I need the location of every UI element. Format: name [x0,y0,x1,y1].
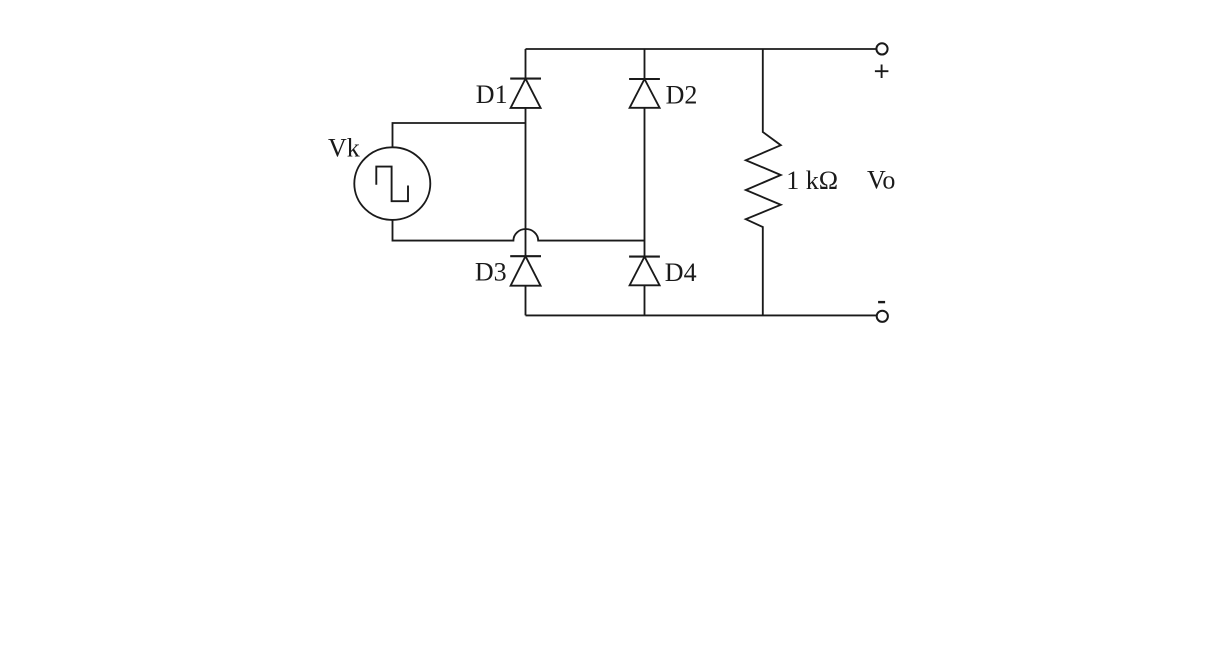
diode D4 triangle [630,257,660,286]
svg-text:D4: D4 [665,258,697,287]
wire: source top lead to node A [393,123,526,147]
wire: D1/D3 column vertical (node A) [525,49,527,315]
diode D2 cathode bar [629,78,660,80]
minus sign marker [878,301,885,303]
svg-text:Vo: Vo [867,166,895,195]
diode D1 cathode bar [510,78,541,80]
diode D1 triangle [511,79,541,108]
output terminal + (open circle) [876,43,887,54]
diode D3 triangle [511,256,541,286]
output terminal - (open circle) [877,311,888,322]
voltage source Vk circle [354,147,430,220]
diode D4 cathode bar [629,256,660,258]
resistor R1 1 kOhm zigzag with leads [746,49,781,315]
square-wave symbol inside source [376,167,408,202]
wire: source bottom lead with hop over node A wire, to node B [393,221,645,241]
svg-text:D3: D3 [475,258,507,287]
wire: top rail from D1 top to + terminal [526,48,877,50]
diode D3 cathode bar [510,255,541,257]
wire: bottom rail from D3 bottom to - terminal [526,314,877,316]
plus sign marker [875,65,889,79]
svg-text:D1: D1 [476,80,508,109]
svg-text:1 kΩ: 1 kΩ [786,166,838,195]
svg-text:D2: D2 [666,81,698,110]
diode D2 triangle [630,79,660,108]
svg-text:Vk: Vk [328,134,360,163]
wire: D2/D4 column vertical (node B) [644,49,646,315]
